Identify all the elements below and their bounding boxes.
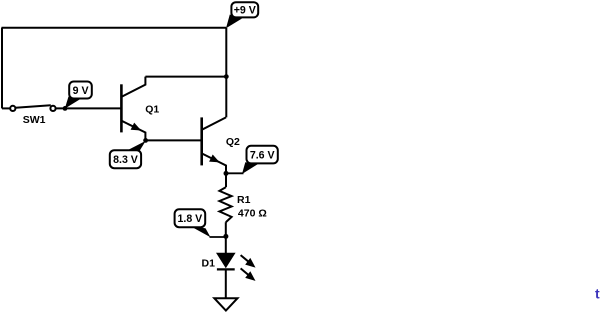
wire Q1 collector to rail — [145, 76, 226, 78]
svg-text:D1: D1 — [202, 258, 216, 270]
annotation 1.8 V — [175, 209, 226, 237]
svg-text:+9 V: +9 V — [234, 5, 256, 17]
annotation 9 V — [65, 82, 92, 109]
annotation +9 V — [226, 2, 258, 28]
svg-text:9 V: 9 V — [73, 85, 89, 97]
wire stub to SW1 — [2, 107, 10, 109]
wire Q1 emitter to Q2 base — [146, 139, 202, 141]
wire left rail — [1, 28, 3, 109]
node below R1 — [223, 234, 228, 239]
node Q1 collector junction — [224, 74, 229, 79]
node after SW1 — [63, 106, 68, 111]
transistor Q2 — [202, 117, 226, 173]
wire top rail — [2, 27, 227, 29]
ground — [214, 298, 237, 310]
svg-text:7.6 V: 7.6 V — [250, 149, 275, 161]
transistor Q1 — [121, 77, 145, 141]
node Q2 emitter — [224, 171, 229, 176]
annotation 8.3 V — [110, 141, 146, 168]
LED D1 — [217, 236, 256, 298]
svg-text:t: t — [595, 285, 600, 301]
wire main vertical rail — [225, 28, 227, 118]
annotation 7.6 V — [226, 146, 278, 174]
switch SW1 — [10, 105, 55, 111]
wire SW1 to Q1 base — [56, 107, 122, 109]
svg-text:R1: R1 — [237, 194, 251, 206]
svg-text:Q2: Q2 — [226, 136, 240, 148]
svg-text:Q1: Q1 — [145, 104, 159, 116]
svg-text:470 Ω: 470 Ω — [238, 207, 267, 219]
resistor R1 — [219, 173, 231, 236]
svg-text:8.3 V: 8.3 V — [113, 154, 138, 166]
svg-text:1.8 V: 1.8 V — [178, 213, 203, 225]
svg-text:SW1: SW1 — [23, 114, 46, 126]
node Q1 emitter — [143, 138, 148, 143]
